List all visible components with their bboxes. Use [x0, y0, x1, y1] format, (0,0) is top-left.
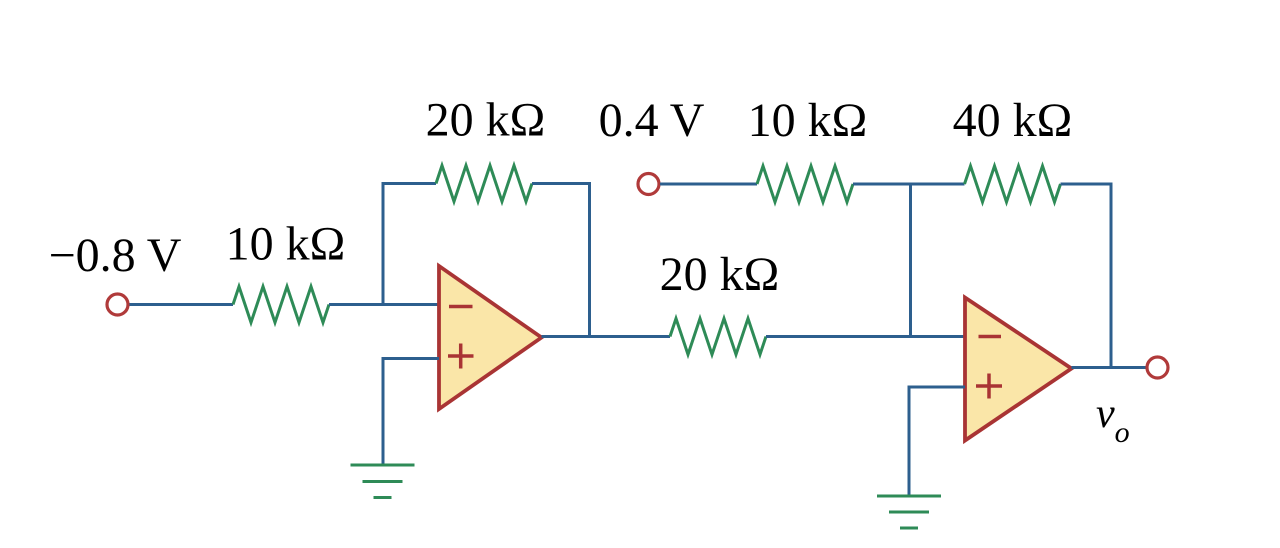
svg-text:10 kΩ: 10 kΩ — [226, 218, 346, 271]
ground G1 — [351, 465, 415, 498]
svg-text:10 kΩ: 10 kΩ — [748, 94, 868, 147]
wire T2 to R3 — [660, 183, 757, 186]
wire R5 to op-amp U2 inverting input — [766, 335, 965, 338]
wire R2 right and down to U1 output — [532, 184, 590, 337]
wire R1 to op-amp U1 inverting input — [329, 303, 439, 306]
op-amp U1 — [439, 266, 542, 409]
svg-text:20 kΩ: 20 kΩ — [660, 248, 780, 301]
wire U1 plus input to ground — [383, 359, 439, 466]
svg-text:0.4 V: 0.4 V — [599, 94, 705, 147]
terminal T2 (0.4 V input) — [638, 174, 659, 195]
op-amp U1 minus sign — [449, 305, 473, 309]
terminal T1 (-0.8 V input) — [107, 294, 128, 315]
svg-text:−0.8 V: −0.8 V — [49, 229, 182, 282]
op-amp U2 plus sign — [976, 374, 1002, 399]
op-amp U1 plus sign — [448, 344, 474, 369]
wire R3 to R4 through node B — [853, 183, 965, 186]
svg-text:40 kΩ: 40 kΩ — [953, 94, 1073, 147]
op-amp U2 — [965, 298, 1072, 441]
wire feedback tap up-left (node A to R2) — [383, 184, 436, 305]
wire node B down to U2 inverting input — [909, 184, 912, 337]
wire U2 output to terminal T3 — [1072, 366, 1148, 369]
resistor R4 40 kOhm (feedback 2) — [965, 166, 1061, 202]
op-amp U2 minus sign — [979, 335, 1002, 339]
resistor R5 20 kOhm (middle) — [670, 319, 766, 355]
svg-text:vo: vo — [1096, 391, 1130, 449]
svg-text:20 kΩ: 20 kΩ — [426, 94, 546, 147]
wire R4 right and down to U2 output — [1061, 184, 1112, 368]
wire U2 plus input to ground — [909, 387, 965, 496]
resistor R1 10 kOhm (left) — [233, 287, 329, 323]
ground G2 — [877, 496, 941, 528]
resistor R3 10 kOhm (top) — [757, 166, 853, 202]
terminal T3 (vo output) — [1147, 357, 1168, 378]
wire T1 to R1 — [130, 303, 234, 306]
wire U1 output to R5 — [542, 335, 671, 338]
resistor R2 20 kOhm (feedback 1) — [436, 166, 532, 202]
